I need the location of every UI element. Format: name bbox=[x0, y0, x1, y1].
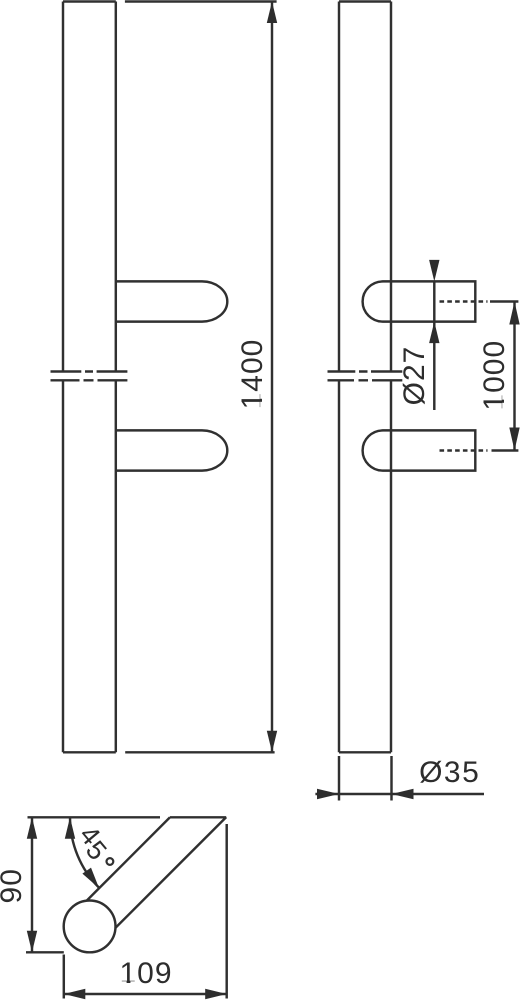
top post centerline dashed bbox=[440, 300, 488, 302]
bottom post centerline dashed bbox=[440, 449, 488, 451]
svg-text:Ø35: Ø35 bbox=[419, 756, 480, 789]
arrow diameter27 upper (pointing down) bbox=[429, 260, 439, 282]
svg-text:109: 109 bbox=[119, 957, 172, 990]
arrow 90 bottom bbox=[27, 931, 37, 953]
arrow diameter27 lower (pointing up) bbox=[429, 322, 439, 344]
dimension 90 line bbox=[31, 817, 33, 952]
diameter 27 dimension line bbox=[433, 281, 435, 410]
arrow 90 top bbox=[27, 817, 37, 839]
white patch removing foot serif of digit 1 in 1000 bbox=[502, 394, 507, 400]
detail circle (bar section) bbox=[64, 901, 116, 953]
front view top post bbox=[116, 281, 228, 321]
arrow 1000 top bbox=[509, 302, 519, 325]
white patch removing foot serif of digit 1 in 1400 bbox=[260, 393, 265, 399]
dimension 109 line bbox=[64, 993, 227, 995]
arrow 109 right bbox=[205, 989, 227, 999]
detail post edges at 45 deg bbox=[87, 817, 227, 928]
arrow diameter35 left (pointing right) bbox=[317, 789, 339, 799]
arrow 45deg arc top bbox=[65, 817, 75, 839]
side view bottom post bbox=[363, 430, 476, 470]
side view break symbol bbox=[328, 372, 403, 381]
white patch removing foot serif of digit 1 in 109 bbox=[121, 981, 126, 984]
arrow 45deg arc bottom bbox=[82, 868, 99, 889]
svg-text:Ø27: Ø27 bbox=[398, 346, 431, 406]
diameter 35 extension lines bbox=[339, 756, 392, 801]
dimension 109 extension lines bbox=[64, 824, 227, 999]
arrow 1000 bottom bbox=[509, 428, 519, 451]
dimension 90 bottom extension bbox=[26, 951, 64, 953]
front view break symbol bbox=[51, 372, 128, 381]
side view top post bbox=[363, 281, 476, 321]
dimension 1000 line bbox=[513, 302, 515, 451]
svg-text:1000: 1000 bbox=[478, 340, 511, 411]
front view bar outline bbox=[63, 2, 116, 753]
dimension 1000 extension lines bbox=[490, 302, 518, 451]
svg-text:90: 90 bbox=[0, 868, 28, 903]
arrow diameter35 right (pointing left) bbox=[392, 789, 414, 799]
dimension 1400 line bbox=[271, 2, 273, 753]
dimension 1400 extension lines bbox=[125, 2, 277, 753]
arrow 109 left bbox=[64, 989, 86, 999]
arrow 1400 bottom bbox=[267, 731, 277, 753]
detail horizontal reference line bbox=[28, 816, 161, 818]
front view bottom post bbox=[116, 430, 228, 470]
side view bar outline bbox=[339, 2, 391, 753]
arrow 1400 top bbox=[267, 2, 277, 24]
45 degree arc bbox=[70, 817, 99, 888]
degree ring of 45 label bbox=[107, 858, 114, 865]
diameter 35 dimension line bbox=[315, 793, 484, 795]
